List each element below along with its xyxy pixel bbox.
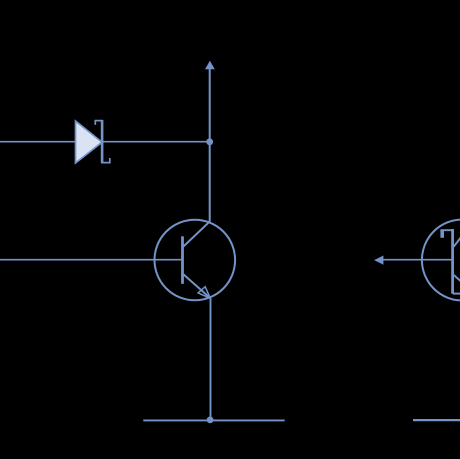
Q2 base bar	[451, 229, 454, 294]
wire: D1 cathode wire to node A	[102, 141, 208, 143]
wire: collector supply wire	[209, 69, 211, 222]
transistor Q1 circle	[155, 220, 236, 301]
zener diode D1	[76, 120, 110, 163]
Q1 emitter arrowhead	[198, 287, 210, 299]
arrowhead up (supply)	[205, 61, 215, 70]
transistor Q2 circle (partial, right edge)	[422, 220, 460, 301]
node B junction dot (bottom)	[207, 417, 214, 424]
arrowhead left (Q2 base)	[374, 256, 383, 265]
wire: Q1 base wire from left edge	[0, 259, 181, 261]
wire: right bottom rail segment	[413, 419, 460, 421]
Q2 emitter line	[454, 275, 460, 284]
Q2 top bracket	[440, 230, 454, 238]
Q1 base bar	[181, 236, 184, 283]
Q2 collector line	[454, 235, 460, 247]
node A junction dot	[206, 138, 213, 145]
Q1 emitter line	[183, 274, 209, 297]
wire: D1 anode wire from left edge	[0, 141, 76, 143]
wire: Q2 base wire with arrow	[383, 259, 452, 261]
wire: Q1 emitter wire down	[210, 298, 212, 420]
Q1 collector line	[183, 221, 210, 246]
wire: bottom rail	[143, 419, 284, 421]
Q2 bottom lead	[453, 293, 460, 295]
